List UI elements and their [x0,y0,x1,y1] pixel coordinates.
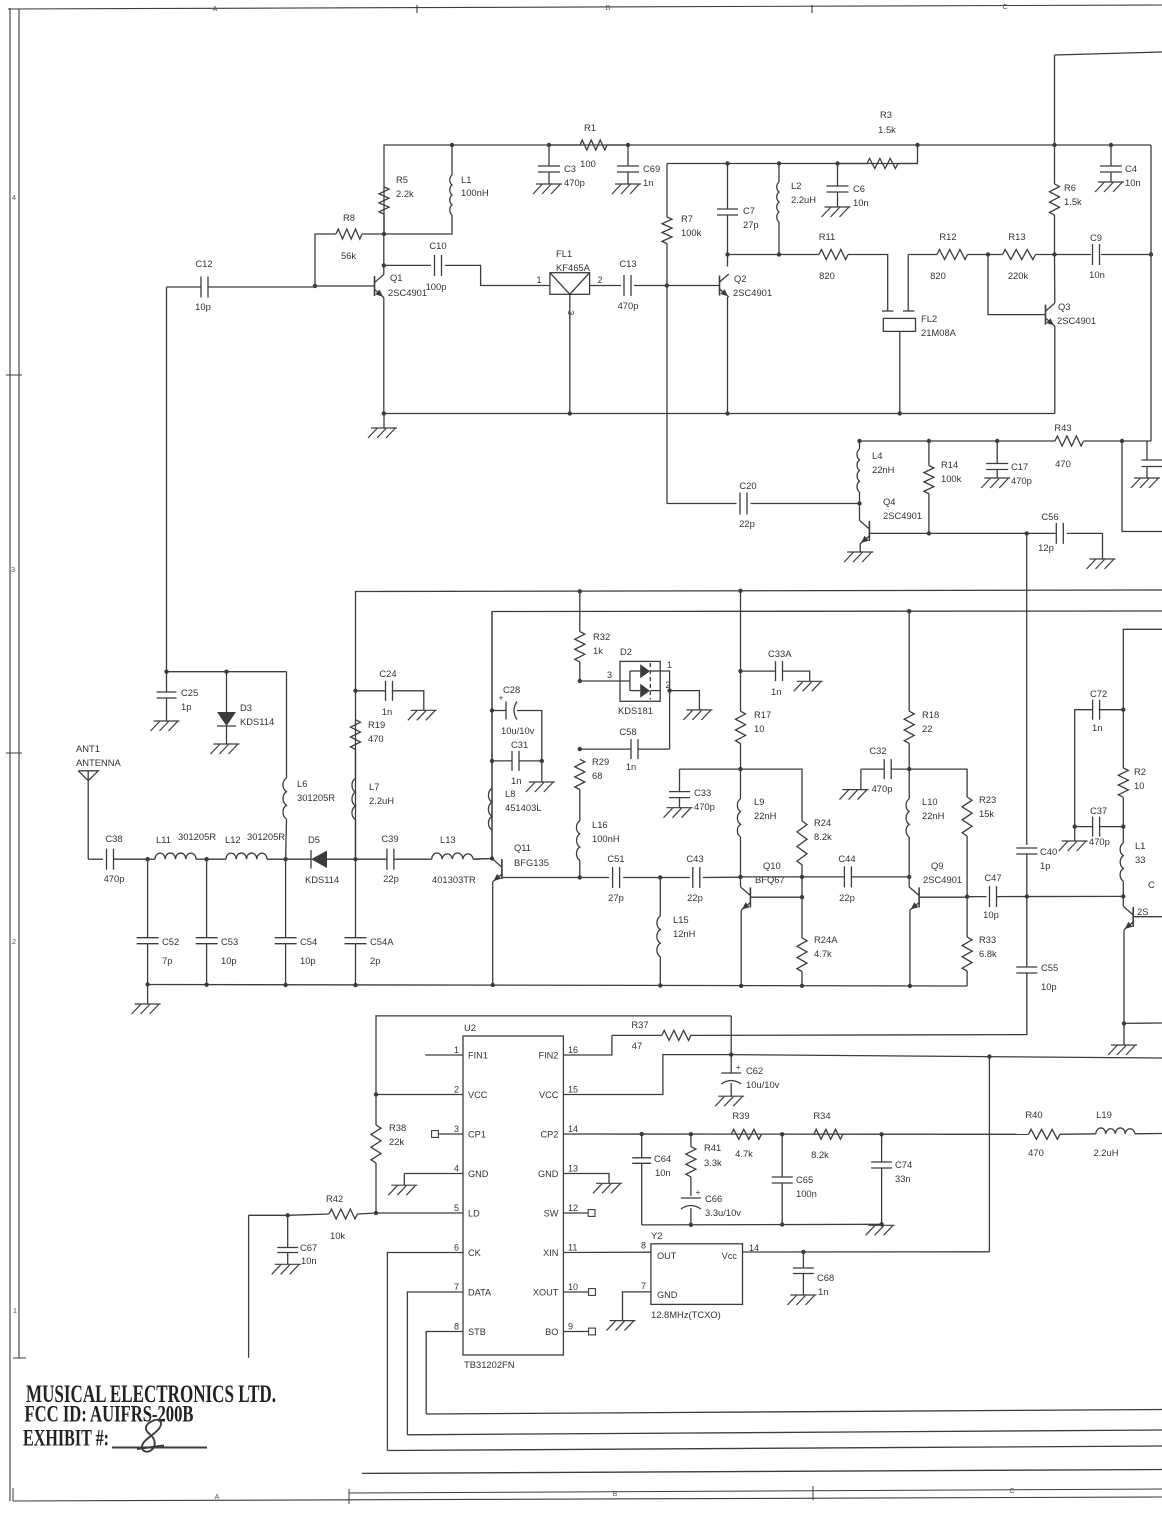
node line2 R18 [907,609,911,613]
svg-text:R12: R12 [939,231,956,242]
svg-text:U2: U2 [464,1022,476,1033]
capacitor C9 [1055,232,1152,280]
node L12-D5 [283,857,287,861]
svg-text:L6: L6 [297,778,307,789]
capacitor C4 [1100,145,1141,188]
node R8 base junction [313,284,317,288]
U2 pin 2 VCC label [454,1085,488,1101]
svg-text:301205R: 301205R [247,831,285,842]
svg-text:10n: 10n [301,1255,317,1266]
node Q1 emitter bus [382,411,386,415]
svg-text:L9: L9 [754,796,764,807]
ground U2 pin13 [593,1183,622,1193]
svg-text:C47: C47 [984,872,1001,883]
inductor L10 [906,769,944,877]
svg-text:1n: 1n [1092,722,1102,733]
node C9 right [1149,252,1153,256]
svg-text:12.8MHz(TCXO): 12.8MHz(TCXO) [651,1309,721,1320]
page border top line [8,4,1162,13]
node Q8 collector input [1121,894,1125,898]
wire R23 branch [909,769,967,797]
svg-text:C12: C12 [195,258,212,269]
svg-text:10u/10v: 10u/10v [746,1079,780,1090]
svg-text:C74: C74 [895,1159,912,1170]
svg-text:10: 10 [1134,780,1144,791]
svg-text:100nH: 100nH [592,833,620,844]
transistor Q1 [375,272,428,298]
svg-text:XOUT: XOUT [533,1288,559,1298]
node Q1 collector C10 tee [382,234,386,268]
page border bottom lines [13,1486,1162,1504]
filter FL1 [536,248,602,414]
wire long line 1 [356,590,1162,859]
svg-text:220k: 220k [1008,270,1029,281]
node C68 tap [801,1250,805,1254]
svg-text:27p: 27p [608,892,624,903]
svg-text:100p: 100p [426,281,447,292]
wire VCC to Y2 [988,1057,990,1252]
svg-text:470: 470 [1055,458,1071,469]
svg-text:C67: C67 [300,1242,317,1253]
capacitor C43 [660,853,740,903]
node C72 tee [1121,708,1125,712]
svg-text:12: 12 [568,1203,578,1213]
wire Q8 emitter right [1124,1022,1162,1024]
wire Q9 output line [967,896,986,898]
svg-text:C38: C38 [105,833,122,844]
node rail C66 [689,1223,693,1227]
svg-text:1: 1 [667,660,672,670]
svg-text:C37: C37 [1090,805,1107,816]
wire R24 branch [741,769,803,821]
resistor R5 [379,174,414,234]
transistor Q9 (mirrored) [909,860,962,910]
capacitor C55 [1016,897,1058,1035]
node base line L16 [578,875,582,879]
svg-text:1.5k: 1.5k [1064,196,1082,207]
svg-text:R23: R23 [979,794,996,805]
svg-text:8.2k: 8.2k [811,1149,829,1160]
resistor R13 [988,231,1055,281]
svg-text:820: 820 [819,270,835,281]
svg-text:Q1: Q1 [390,272,403,283]
wire pin14 CP2 line [563,1133,1028,1135]
node R23-R33 base [965,895,969,899]
transistor Q2 [720,273,773,298]
node C64 tap [640,1132,644,1136]
svg-text:10n: 10n [1089,269,1105,280]
ground C68 [787,1295,816,1305]
svg-text:ANTENNA: ANTENNA [76,757,122,768]
svg-text:C51: C51 [607,853,624,864]
wire C56 tap vertical [1026,533,1028,845]
node C28 tee [490,708,494,712]
svg-text:5: 5 [454,1203,459,1213]
node VCC C62 [729,1052,733,1056]
svg-text:Q11: Q11 [514,842,531,853]
node R13 right junction [1052,252,1056,256]
svg-text:1: 1 [454,1045,459,1055]
svg-text:10p: 10p [300,955,316,966]
wire Q1 base [315,285,375,287]
svg-text:STB: STB [468,1327,486,1337]
svg-text:BFG135: BFG135 [514,857,549,868]
svg-text:22nH: 22nH [754,810,776,821]
wire top-right branch [1055,52,1162,145]
svg-text:4.7k: 4.7k [735,1148,753,1159]
node C13-R7 junction [665,283,669,287]
svg-text:13: 13 [568,1164,578,1174]
inductor L15 [657,878,696,986]
svg-text:10k: 10k [330,1230,345,1241]
node FL2 bus [898,411,902,415]
node rail C65 [780,1222,784,1226]
node bus C54A [353,983,357,987]
svg-text:C53: C53 [221,936,238,947]
svg-text:R34: R34 [813,1110,830,1121]
ground Y2 [607,1321,636,1331]
wire pin3 CP1 square [432,1131,463,1138]
wire CK bus line [387,1446,1162,1451]
wire Vcc rail top [384,145,1151,234]
ground C25 [151,721,180,731]
svg-text:C68: C68 [817,1272,834,1283]
ground C72-C37 [1059,827,1088,851]
svg-text:C4: C4 [1125,163,1137,174]
svg-text:12p: 12p [1038,542,1054,553]
node C56 tap [1025,531,1029,535]
U2 pin 4 GND label [454,1164,489,1180]
resistor R24A [797,897,838,986]
inductor L6 [283,672,335,860]
resistor R11 [819,231,888,311]
resistor R42 [249,1193,376,1241]
svg-text:2p: 2p [370,955,380,966]
node D5-C39 [353,857,357,861]
svg-text:1p: 1p [181,701,191,712]
wire Q8 base line [1133,916,1162,918]
svg-text:6.8k: 6.8k [979,948,997,959]
ground C67 [272,1264,301,1274]
svg-text:10p: 10p [983,909,999,920]
ground bus left [368,414,397,439]
crystal filter FL2 [882,255,957,414]
svg-text:L2: L2 [791,180,801,191]
node C74 tap [879,1132,883,1136]
wire Q1 emitter [383,298,385,414]
wire Q3 collector [1054,255,1056,304]
svg-text:KDS114: KDS114 [240,716,274,727]
capacitor C54A [345,859,395,985]
handwritten 8 [137,1420,164,1452]
svg-text:XIN: XIN [543,1248,558,1258]
U2 pin 8 STB label [454,1322,486,1338]
svg-text:R40: R40 [1025,1109,1042,1120]
IC U2 box [463,1022,563,1370]
wire pin6 CK [387,1253,463,1451]
node Q2 emitter bus [725,411,729,415]
capacitor C44 [741,853,910,903]
svg-text:22nH: 22nH [922,810,944,821]
svg-text:301205R: 301205R [178,831,216,842]
svg-text:C72: C72 [1090,688,1107,699]
wire Q11 collector column [491,612,493,859]
resistor R18 [904,611,939,769]
svg-text:2.2uH: 2.2uH [369,795,394,806]
svg-text:6: 6 [454,1243,459,1253]
svg-text:4.7k: 4.7k [814,948,832,959]
wire D2 pin2 down to C58 [669,691,671,750]
node VCC pin2 [374,1092,378,1096]
svg-text:FCC ID: AUIFRS-200B: FCC ID: AUIFRS-200B [25,1402,194,1428]
node C65 tap [780,1132,784,1136]
capacitor C69 [617,145,660,188]
node rail-C4 [1109,143,1113,147]
svg-text:L19: L19 [1096,1109,1112,1120]
svg-text:1n: 1n [643,177,653,188]
wire D2 pins to ground [660,671,699,710]
wire pin10 XOUT square [563,1289,595,1296]
svg-text:L10: L10 [922,796,938,807]
svg-text:Q3: Q3 [1058,301,1071,312]
node L15 bus [658,983,662,987]
transistor Q4 (mirrored) [860,496,923,544]
capacitor C68 [793,1252,834,1297]
wire pin7 DATA [407,1292,463,1435]
svg-text:8.2k: 8.2k [814,831,832,842]
capacitor C51 [580,853,661,903]
ground D3 [211,744,240,754]
svg-text:C: C [1009,1488,1014,1495]
svg-text:R29: R29 [592,756,609,767]
antenna ANT1 [76,743,122,859]
svg-text:R7: R7 [681,213,693,224]
wire Q1 collector [383,265,385,274]
inductor L4 [857,441,894,504]
svg-text:Y2: Y2 [651,1230,662,1241]
node C17 top [995,439,999,443]
node R24A bus [800,984,804,988]
capacitor C20 [667,480,860,529]
svg-text:8: 8 [454,1322,459,1332]
resistor R24 [797,817,832,897]
svg-text:L15: L15 [673,914,689,925]
wire Q10 emitter [740,910,742,986]
inductor L7 [352,749,394,859]
svg-text:C: C [1148,879,1155,890]
svg-text:3.3u/10v: 3.3u/10v [705,1207,741,1218]
svg-text:C7: C7 [743,205,755,216]
node VCC Y2 tap [987,1054,991,1058]
node C51-L15-C43 [658,875,662,879]
svg-text:470p: 470p [618,300,639,311]
node Q11 emitter bus [491,983,495,987]
svg-text:R24: R24 [814,817,831,828]
svg-text:FIN1: FIN1 [468,1051,488,1061]
inductor L16 [576,790,619,878]
node Q11 collector input [490,856,494,860]
wire Q3 emitter [1054,326,1056,414]
svg-text:EXHIBIT #:: EXHIBIT #: [23,1426,109,1452]
node rail-C69 [626,143,630,147]
svg-text:2SC4901: 2SC4901 [883,510,922,521]
svg-text:C40: C40 [1040,846,1057,857]
svg-text:R43: R43 [1054,422,1071,433]
svg-text:56k: 56k [341,250,356,261]
svg-text:D3: D3 [240,702,252,713]
svg-text:470p: 470p [694,801,715,812]
node bus C53 [204,983,208,987]
capacitor C62 [721,1055,779,1097]
transistor Q3 [1046,301,1097,326]
svg-text:1: 1 [536,275,541,285]
wire Q2 emitter [727,297,729,414]
node C7 top [725,161,729,165]
wire Y2 Vcc line [743,1243,990,1253]
svg-text:ANT1: ANT1 [76,743,100,754]
svg-text:C39: C39 [381,833,398,844]
capacitor C74 [871,1134,912,1224]
svg-text:R41: R41 [704,1142,721,1153]
svg-text:2: 2 [12,937,16,946]
capacitor C67 [277,1215,317,1266]
capacitor C24 [356,668,424,717]
svg-text:C52: C52 [162,936,179,947]
svg-text:33n: 33n [895,1173,911,1184]
svg-text:14: 14 [568,1124,578,1134]
svg-text:C65: C65 [796,1174,813,1185]
wire C25-D3 line [167,671,287,673]
svg-text:451403L: 451403L [505,802,542,813]
title text EXHIBIT [23,1426,109,1452]
svg-text:R11: R11 [819,231,836,242]
svg-text:TB31202FN: TB31202FN [464,1359,515,1370]
resistor R34 [811,1110,843,1160]
capacitor C38 [104,833,148,884]
wire Q4 base line [869,532,1055,534]
svg-text:1n: 1n [382,706,392,717]
svg-text:R24A: R24A [814,934,838,945]
svg-text:Vcc: Vcc [722,1251,738,1261]
svg-text:L7: L7 [369,781,379,792]
resistor R32 [575,591,610,681]
capacitor C12 [167,258,316,312]
svg-text:100k: 100k [681,227,702,238]
svg-text:3: 3 [607,670,612,680]
ground mixer bus [132,985,161,1015]
node rail-C3 [547,143,551,147]
wire loop filter bottom rail [642,1223,882,1226]
node Q10 emitter bus [739,984,743,988]
node R43 tap [1120,439,1124,443]
node L2 bottom [777,252,781,256]
node R5-R8-L1 junction [382,232,386,236]
capacitor C32 [861,745,909,794]
svg-text:11: 11 [568,1243,577,1253]
node R18-C32-L10 [907,767,911,771]
node bus C54 [283,983,287,987]
title text MUSICAL ELECTRONICS LTD. [26,1381,276,1408]
svg-text:470p: 470p [1011,475,1032,486]
capacitor C7 [717,164,759,255]
page border left lines [6,8,26,1501]
svg-text:R39: R39 [732,1110,749,1121]
node line1 R32 [578,589,582,593]
svg-text:ω: ω [568,308,574,317]
svg-text:L8: L8 [505,788,515,799]
svg-text:R37: R37 [631,1019,648,1030]
svg-text:1n: 1n [511,775,521,786]
node R14 bottom [927,531,931,535]
svg-text:21M08A: 21M08A [921,327,957,338]
node C40 line tap [1025,894,1029,898]
svg-text:R6: R6 [1064,182,1076,193]
node R41 tap [689,1132,693,1136]
capacitor C40 [1016,846,1057,897]
svg-text:1.5k: 1.5k [878,124,896,135]
svg-text:R19: R19 [368,719,385,730]
capacitor C64 [632,1134,671,1225]
U2 pin 12 SW label [544,1203,578,1219]
capacitor C39 [356,833,432,884]
svg-text:GND: GND [468,1169,489,1179]
capacitor C65 [772,1134,817,1224]
node C33A tee [738,669,742,673]
node Q9 collector input [907,875,911,879]
resistor R38 [371,1095,406,1214]
wire pin11 XIN [563,1241,651,1253]
node Q8 emitter [1122,1021,1126,1025]
capacitor C13 [590,258,667,311]
wire pin1 FIN1 [425,1054,463,1056]
diode D5 [286,834,356,885]
svg-text:KF465A: KF465A [556,262,591,273]
node C24 tee [353,689,357,693]
svg-text:2SC4901: 2SC4901 [923,874,962,885]
svg-text:DATA: DATA [468,1288,492,1298]
capacitor C72 [1075,688,1124,827]
svg-text:16: 16 [568,1045,578,1055]
wire pin5 LD [377,1212,463,1214]
svg-text:C54: C54 [300,936,317,947]
svg-text:1k: 1k [593,645,603,656]
resistor R39 [731,1110,761,1159]
svg-text:22p: 22p [839,892,855,903]
svg-text:Q10: Q10 [763,860,781,871]
svg-text:12nH: 12nH [673,928,695,939]
ground C3 [533,184,562,194]
svg-text:C33A: C33A [768,648,792,659]
svg-text:10p: 10p [1041,981,1057,992]
svg-text:1n: 1n [626,761,636,772]
svg-text:2SC4901: 2SC4901 [733,287,772,298]
svg-text:2S: 2S [1137,906,1148,917]
node FL1 gnd stem [568,411,572,415]
svg-text:R3: R3 [880,109,892,120]
svg-text:2.2k: 2.2k [396,188,414,199]
svg-text:10n: 10n [655,1167,671,1178]
node D3 tee [224,670,228,674]
svg-text:C33: C33 [694,787,711,798]
svg-text:R38: R38 [389,1122,406,1133]
capacitor C33A [741,648,810,697]
diode pack D2 [618,646,672,716]
svg-text:C3: C3 [564,163,576,174]
oscillator Y2 box [651,1230,743,1320]
svg-text:27p: 27p [743,219,759,230]
wire pin15 VCC [563,1055,731,1095]
svg-text:VCC: VCC [539,1090,559,1100]
